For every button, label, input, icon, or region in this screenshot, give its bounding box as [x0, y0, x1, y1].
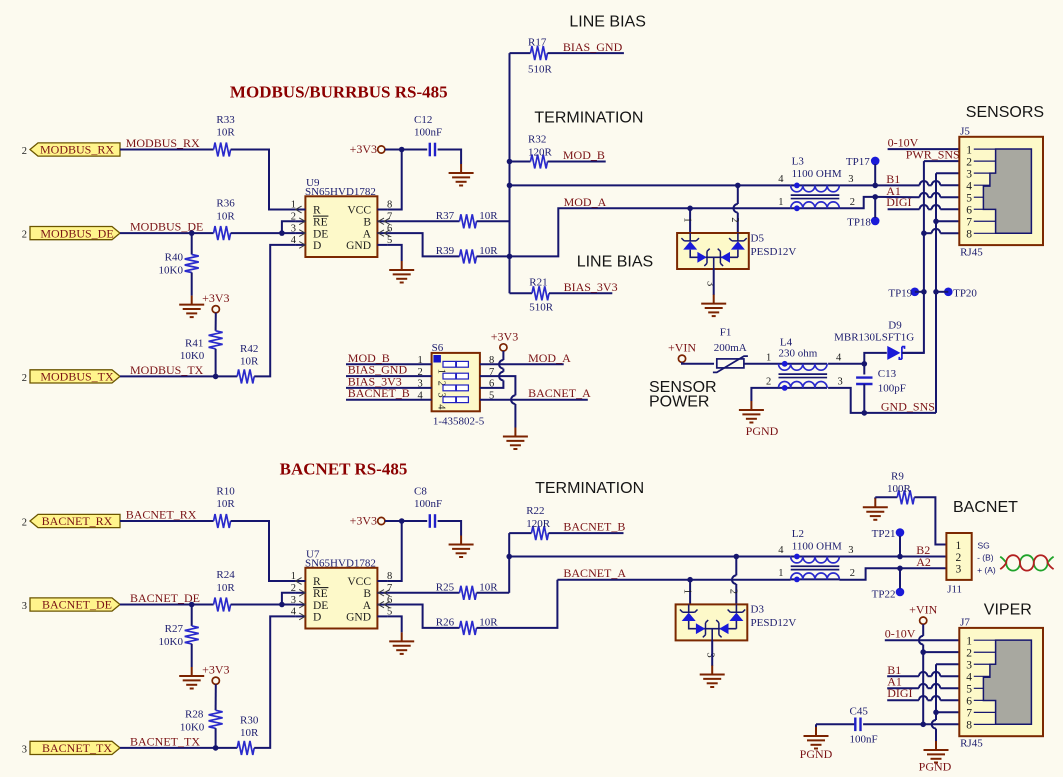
label R42 10R	[240, 343, 259, 368]
wire A1 to J7 pin	[940, 687, 959, 689]
junction R27 tap	[189, 602, 195, 608]
label R37 10R	[436, 210, 499, 222]
svg-text:RJ45: RJ45	[960, 246, 983, 258]
svg-text:R26: R26	[436, 617, 455, 629]
svg-text:R39: R39	[436, 245, 455, 257]
connector J5 RJ45 SENSORS	[959, 126, 1043, 259]
ground at R9	[863, 498, 888, 520]
wire ground to R9	[875, 496, 897, 498]
svg-text:120R: 120R	[526, 518, 551, 530]
port BACNET_RX	[22, 514, 120, 528]
junction DE net bottom	[279, 602, 285, 608]
wire L3 pin3 to B1 node	[839, 184, 875, 186]
wire L2 pin3 to J11 pin2	[839, 556, 946, 558]
power +3V3 at C8	[350, 514, 385, 528]
wire hop +VIN over 0-10V	[919, 636, 923, 645]
capacitor C8	[430, 514, 435, 528]
svg-text:R: R	[313, 205, 321, 217]
svg-text:PGND: PGND	[746, 424, 779, 438]
wire C8 to ground	[438, 521, 462, 536]
svg-text:J11: J11	[947, 583, 962, 595]
svg-text:L3: L3	[792, 156, 805, 168]
label R24 10R	[216, 569, 235, 594]
svg-text:3: 3	[291, 595, 296, 606]
svg-text:3: 3	[848, 174, 853, 185]
svg-text:RE: RE	[313, 588, 328, 600]
junction trunk/R39	[507, 254, 513, 260]
junction +3V3/VCC bottom	[399, 518, 405, 524]
resistor R22	[532, 526, 549, 540]
wire DIGI to J7 pin	[940, 699, 959, 701]
label R33 10R	[216, 114, 235, 139]
label D9 MBR130LSFT1G	[834, 320, 914, 344]
wire D9 cathode to PWR_SNS	[902, 352, 924, 354]
wire TP17 down	[874, 164, 876, 185]
junction TP20	[933, 289, 939, 295]
wire MOD_B stub at S6	[346, 363, 432, 365]
wire 0-10V at J7	[885, 639, 960, 641]
svg-text:1-435802-5: 1-435802-5	[433, 415, 485, 427]
wire C45 to J7 pin8	[863, 723, 959, 725]
resistor R40	[185, 255, 199, 273]
svg-text:TERMINATION: TERMINATION	[534, 110, 643, 127]
svg-text:MODBUS_DE: MODBUS_DE	[40, 226, 113, 240]
svg-text:2: 2	[766, 376, 771, 387]
wire B1 segment 1	[875, 184, 919, 186]
switch S6 1-435802-5	[417, 342, 494, 427]
capacitor C12	[430, 143, 435, 157]
wire B1 to J7 pin	[940, 675, 959, 677]
wire R28 to BACNET_TX net	[215, 728, 217, 748]
wire R27 to ground	[191, 644, 193, 667]
svg-text:3: 3	[705, 652, 716, 657]
svg-text:2: 2	[966, 647, 972, 659]
label F1 200mA	[714, 327, 747, 355]
power +3V3 at C12	[350, 142, 385, 156]
svg-text:3: 3	[291, 223, 296, 234]
svg-text:100nF: 100nF	[414, 127, 442, 139]
wire tie to J5 pin7	[936, 220, 959, 222]
svg-text:RJ45: RJ45	[960, 738, 983, 750]
wire DIGI to J5 pin6	[940, 208, 959, 210]
wire DIGI segment 1	[888, 208, 920, 210]
label C13 100pF	[878, 368, 906, 394]
wire BACNET_TX from port	[120, 747, 237, 749]
junction +VIN/C45	[920, 722, 926, 728]
diode D5 PESD12V (TVS array)	[677, 233, 749, 269]
header SENSOR POWER	[649, 379, 717, 411]
wire MODBUS_RX from port	[120, 149, 214, 151]
svg-text:120R: 120R	[528, 147, 553, 159]
power +3V3 at R41	[202, 291, 229, 313]
svg-text:PESD12V: PESD12V	[751, 246, 797, 258]
svg-text:MODBUS_TX: MODBUS_TX	[130, 363, 204, 377]
svg-text:+3V3: +3V3	[491, 329, 518, 343]
svg-text:B: B	[363, 588, 371, 600]
IC U7 SN65HVD1782	[291, 548, 393, 628]
svg-text:BACNET_B: BACNET_B	[348, 386, 410, 400]
wire node to D9 anode	[864, 353, 887, 364]
wire hop pin7 gnd over BACNET_A	[511, 395, 515, 404]
label R41 10K0	[180, 337, 205, 362]
wire trunk to R17	[510, 52, 531, 54]
svg-text:R22: R22	[526, 505, 544, 517]
svg-text:MOD_B: MOD_B	[563, 148, 605, 162]
wire DIGI segment 2	[928, 208, 932, 210]
wire L4 pin2 to PGND	[751, 388, 778, 401]
svg-text:10R: 10R	[479, 617, 498, 629]
junction J7 pin7	[933, 710, 939, 716]
wire +3V3 to C8	[385, 520, 427, 522]
svg-text:BACNET_TX: BACNET_TX	[42, 741, 112, 755]
wire BACNET_DE from port	[120, 604, 214, 606]
label R26 10R	[436, 617, 499, 629]
wire U7 GND pin	[387, 616, 401, 632]
port MODBUS_TX	[22, 370, 120, 384]
svg-text:+3V3: +3V3	[202, 291, 229, 305]
junction A1 node	[872, 194, 878, 200]
svg-text:RE: RE	[313, 217, 328, 229]
svg-text:2: 2	[728, 589, 739, 594]
wire +VIN vertical	[922, 624, 924, 724]
svg-text:6: 6	[966, 204, 972, 216]
resistor R24	[214, 598, 231, 612]
wire trunk to R32	[510, 161, 531, 163]
test point TP21	[872, 528, 905, 540]
svg-text:4: 4	[291, 607, 297, 618]
junction C13/GND_SNS	[862, 410, 868, 416]
svg-text:10R: 10R	[240, 727, 259, 739]
wire TP18 up	[874, 197, 876, 218]
label R21 510R	[529, 276, 554, 313]
svg-text:DIGI: DIGI	[886, 195, 911, 209]
svg-text:D: D	[313, 240, 321, 252]
resistor R41	[209, 331, 223, 349]
resistor R33	[214, 143, 231, 157]
diode D3 PESD12V (TVS array)	[676, 604, 748, 640]
junction BACNET_TX/R28	[213, 745, 219, 751]
svg-text:1: 1	[956, 540, 962, 552]
wire bacnet trunk vertical	[508, 533, 510, 593]
resistor R9	[897, 490, 914, 504]
svg-text:510R: 510R	[528, 64, 553, 76]
wire R30 to U7 pin4	[254, 616, 295, 748]
wire A1 at J7 mid	[928, 687, 932, 689]
resistor R28	[209, 710, 223, 728]
ground below U7	[389, 632, 414, 654]
wire S6 pin8 MOD_A stub	[480, 363, 564, 365]
svg-text:BIAS_GND: BIAS_GND	[563, 40, 623, 54]
power +3V3 at S6	[491, 329, 518, 351]
inductor L3 1100 OHM	[778, 174, 855, 211]
svg-text:7: 7	[966, 708, 972, 720]
wire PWR_SNS to J5 pin2	[924, 160, 959, 162]
label C12 100nF	[414, 114, 442, 139]
wire hop pin8 tie	[932, 229, 941, 233]
svg-text:1: 1	[778, 197, 783, 208]
svg-text:F1: F1	[720, 327, 732, 339]
svg-text:230 ohm: 230 ohm	[779, 348, 818, 360]
label R10 10R	[216, 485, 235, 510]
wire R26 to BACNET_A riser	[477, 580, 558, 628]
wire TP21 down	[899, 536, 901, 557]
wire R36 to U9 pin3	[231, 232, 296, 234]
wire U7 A to R26	[387, 605, 459, 628]
svg-text:10R: 10R	[216, 498, 235, 510]
test point TP17	[846, 156, 880, 168]
resistor R21	[532, 286, 549, 300]
test point TP20	[944, 287, 977, 299]
label C45 100nF	[850, 705, 878, 745]
wire TP19 link	[915, 291, 924, 293]
label R28 10K0	[180, 708, 205, 733]
svg-text:4: 4	[291, 235, 297, 246]
svg-text:D3: D3	[751, 603, 765, 615]
svg-text:10K0: 10K0	[159, 636, 184, 648]
svg-text:10K0: 10K0	[180, 350, 205, 362]
label R22 120R	[526, 505, 551, 530]
svg-text:2: 2	[850, 568, 855, 579]
svg-text:7: 7	[966, 216, 972, 228]
svg-text:10R: 10R	[216, 127, 235, 139]
svg-text:MODBUS_TX: MODBUS_TX	[40, 370, 114, 384]
svg-text:VCC: VCC	[347, 205, 371, 217]
svg-text:BACNET_TX: BACNET_TX	[130, 734, 200, 748]
svg-text:R17: R17	[528, 36, 547, 48]
junction TP19	[921, 289, 927, 295]
wire bias trunk vertical	[509, 53, 511, 293]
resistor R30	[237, 741, 254, 755]
svg-text:1: 1	[966, 144, 972, 156]
wire BIAS_GND stub at S6	[346, 375, 432, 377]
ground below D3	[700, 666, 725, 688]
junction TP22/A2	[897, 566, 903, 572]
fuse F1 200mA	[713, 356, 748, 372]
svg-text:D: D	[313, 612, 321, 624]
resistor R32	[531, 155, 548, 169]
label R39 10R	[436, 245, 499, 257]
svg-text:TP20: TP20	[953, 287, 977, 299]
svg-text:8: 8	[966, 229, 972, 241]
wire L4 pin4 to node	[828, 363, 864, 365]
wire to R40	[191, 233, 193, 254]
svg-text:SG: SG	[978, 540, 990, 550]
svg-text:PGND: PGND	[919, 759, 952, 772]
wire R10 to U7 pin1	[231, 521, 296, 581]
inductor L4 230 ohm	[766, 352, 843, 391]
svg-text:2: 2	[22, 373, 27, 384]
svg-text:SN65HVD1782: SN65HVD1782	[305, 557, 376, 569]
svg-text:+VIN: +VIN	[668, 341, 696, 355]
junction DE net	[279, 230, 285, 236]
svg-text:2: 2	[22, 518, 27, 529]
wire B1 segment 2	[928, 184, 932, 186]
wire hop +3V3 over pin7	[499, 372, 503, 381]
wire R9 ground stub	[874, 497, 876, 499]
wire BACNET_B stub at S6	[346, 399, 432, 401]
svg-text:R30: R30	[240, 714, 259, 726]
wire MOD_B to L3 pin4	[510, 184, 791, 186]
svg-text:100nF: 100nF	[850, 733, 878, 745]
label R30 10R	[240, 714, 259, 739]
wire hop B1 over PWR_SNS	[920, 181, 929, 185]
wire to J7 pin2	[923, 651, 959, 653]
svg-text:D5: D5	[751, 233, 765, 245]
wire C12 to ground	[438, 150, 462, 165]
wire hop DIGI over +VIN	[919, 696, 928, 700]
svg-text:100nF: 100nF	[414, 498, 442, 510]
svg-text:TP22: TP22	[872, 589, 896, 601]
port MODBUS_RX	[22, 143, 120, 157]
svg-text:3: 3	[956, 564, 962, 576]
junction R40 tap	[189, 230, 195, 236]
wire hop A1 over PWR_SNS	[920, 193, 929, 197]
capacitor C45	[855, 718, 860, 732]
wire L2 pin2 to J11 pin3	[839, 568, 946, 579]
svg-text:R27: R27	[165, 623, 184, 635]
connector J7 RJ45 VIPER	[959, 617, 1043, 750]
junction trunk/R32	[507, 159, 513, 165]
connector J11	[946, 533, 971, 595]
wire MOD_B stub	[548, 161, 606, 163]
svg-text:C13: C13	[878, 368, 897, 380]
resistor R27	[185, 626, 199, 644]
wire BACNET_B stub	[549, 532, 624, 534]
wire BACNET_A to L2 pin1	[557, 579, 790, 581]
svg-text:S6: S6	[432, 342, 444, 354]
ground below D5	[701, 295, 726, 317]
svg-text:BACNET_DE: BACNET_DE	[42, 598, 112, 612]
svg-text:4: 4	[778, 174, 784, 185]
svg-text:GND: GND	[346, 240, 371, 252]
svg-text:VCC: VCC	[347, 576, 371, 588]
svg-text:C12: C12	[414, 114, 432, 126]
svg-text:R24: R24	[216, 569, 235, 581]
svg-text:+3V3: +3V3	[350, 142, 377, 156]
wire trunk to R22	[509, 532, 531, 534]
svg-text:TP19: TP19	[888, 287, 912, 299]
wire pin8 tie to J5 pin8	[940, 232, 959, 234]
svg-text:+VIN: +VIN	[909, 603, 937, 617]
port BACNET_TX	[22, 741, 120, 755]
svg-text:2: 2	[966, 156, 972, 168]
wire TP20 link	[936, 291, 948, 293]
wire R41 to MODBUS_TX net	[215, 349, 217, 377]
junction +VIN/J7 pin2	[920, 649, 926, 655]
wire MODBUS_TX from port	[120, 375, 237, 377]
svg-text:1: 1	[766, 352, 771, 363]
svg-text:LINE BIAS: LINE BIAS	[577, 253, 653, 270]
wire hop DIGI over PWR_SNS	[920, 205, 929, 209]
wire hop A1 over PGND	[932, 684, 941, 688]
wire A1 to J5 pin5	[940, 196, 959, 198]
svg-text:2: 2	[850, 197, 855, 208]
svg-text:R9: R9	[891, 471, 904, 483]
junction trunk/MOD_B	[507, 183, 513, 189]
svg-text:R21: R21	[529, 276, 547, 288]
wire A1 segment 1	[875, 196, 919, 198]
wire U9 GND pin	[387, 245, 401, 261]
wire hop D3 pin2 over BACNET_A	[732, 575, 736, 584]
resistor R39	[460, 249, 477, 263]
wire B1 at J7 left	[887, 675, 919, 677]
svg-text:2: 2	[22, 146, 27, 157]
wire MODBUS_DE from port	[120, 232, 214, 234]
wire +3V3 drop to S6 pin6	[480, 351, 504, 388]
capacitor C13	[856, 378, 872, 384]
ground below C12	[449, 164, 474, 186]
label R17 510R	[528, 36, 553, 75]
wire BACNET_B to L2 pin4	[509, 556, 791, 558]
svg-text:10R: 10R	[216, 210, 235, 222]
svg-text:R33: R33	[216, 114, 235, 126]
svg-text:PGND: PGND	[800, 747, 833, 761]
label C8 100nF	[414, 485, 442, 510]
ground below S6	[503, 428, 528, 450]
wire U7 VCC riser	[387, 521, 401, 581]
wire C13 to GND_SNS	[863, 384, 865, 413]
svg-text:10K0: 10K0	[180, 721, 205, 733]
label R27 10K0	[159, 623, 184, 648]
svg-text:+ (A): + (A)	[977, 565, 996, 575]
svg-text:GND_SNS: GND_SNS	[881, 399, 935, 413]
diode D9 MBR130LSFT1G	[887, 346, 904, 360]
ground below C8	[449, 536, 474, 558]
svg-text:BACNET_A: BACNET_A	[528, 386, 591, 400]
svg-text:R36: R36	[216, 198, 235, 210]
svg-text:4: 4	[966, 180, 972, 192]
svg-text:VIPER: VIPER	[984, 602, 1032, 619]
junction BACNET_A/D3 pin1	[687, 577, 693, 583]
wire BACNET_RX from port	[120, 520, 214, 522]
svg-text:DE: DE	[313, 228, 328, 240]
resistor R26	[460, 621, 477, 635]
svg-text:10R: 10R	[479, 245, 498, 257]
svg-text:LINE BIAS: LINE BIAS	[569, 14, 645, 31]
svg-text:2: 2	[22, 230, 27, 241]
wire D3 pin1	[689, 580, 691, 605]
wire +VIN to F1	[682, 362, 714, 364]
svg-text:3: 3	[966, 659, 972, 671]
wire U9 B to R37	[387, 220, 459, 222]
svg-text:+3V3: +3V3	[202, 663, 229, 677]
svg-text:3: 3	[838, 376, 843, 387]
svg-text:SENSORS: SENSORS	[966, 104, 1044, 121]
wire U9 VCC riser	[387, 150, 401, 210]
wire hop DIGI over PGND	[932, 696, 941, 700]
wire hop +3V3 over pin8	[499, 360, 503, 369]
wire R24 to U7 pin3	[231, 604, 296, 606]
resistor R17	[531, 46, 548, 60]
svg-text:MODBUS/BURRBUS RS-485: MODBUS/BURRBUS RS-485	[230, 83, 448, 102]
svg-text:1: 1	[291, 200, 296, 211]
svg-text:B: B	[363, 217, 371, 229]
junction TP21/B2	[897, 554, 903, 560]
svg-text:1: 1	[778, 568, 783, 579]
svg-text:1: 1	[682, 217, 693, 222]
junction B1 node	[872, 183, 878, 189]
wire +3V3 to R28	[215, 684, 217, 710]
ground below R27	[179, 667, 204, 689]
svg-text:10R: 10R	[479, 582, 498, 594]
svg-text:R32: R32	[528, 134, 546, 146]
svg-text:BACNET_RX: BACNET_RX	[126, 508, 197, 522]
ground PGND at L4	[739, 401, 764, 423]
svg-text:MODBUS_RX: MODBUS_RX	[40, 143, 114, 157]
svg-text:1: 1	[291, 571, 296, 582]
svg-text:10R: 10R	[216, 582, 235, 594]
wire A1 at J7 left	[887, 687, 919, 689]
